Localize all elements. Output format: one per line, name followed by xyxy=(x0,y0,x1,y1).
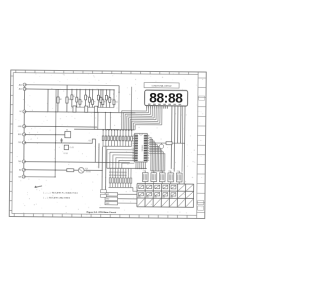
resistor R6 xyxy=(92,100,94,105)
wire drop x100.4 xyxy=(100,90,102,108)
wire rail 7 (TH1) xyxy=(24,162,130,163)
wire collect line under RA1 xyxy=(103,145,131,147)
display DS1 bottom-right pins xyxy=(171,106,173,110)
wire drop x105.9 xyxy=(105,90,107,108)
wire drop x109.3 xyxy=(109,90,111,108)
crystal X1 xyxy=(65,131,71,137)
label box CONDITIONAL DISPLAY xyxy=(144,83,179,88)
junction dots on bus corners xyxy=(107,129,108,130)
wire rail 5 (OSC1) xyxy=(24,133,64,135)
resistor R2 xyxy=(57,97,59,103)
connector pin TXD xyxy=(23,141,26,144)
svg-text:TH1: TH1 xyxy=(18,161,21,163)
connector pin TH1 xyxy=(22,160,25,163)
capacitor C1 xyxy=(76,97,78,102)
wire collector segment under comb xyxy=(72,106,114,108)
wire drop x97.8 xyxy=(97,90,99,108)
svg-text:R6: R6 xyxy=(94,101,96,103)
wire rail y142.5 right of IC xyxy=(149,142,184,144)
svg-text:R8: R8 xyxy=(104,101,106,103)
wire rail VSS (second) xyxy=(25,88,114,91)
wire rail 3 (VC) xyxy=(24,112,135,113)
transistor Q1 xyxy=(78,168,84,174)
wire vertical x184.6 to matrix right xyxy=(183,106,186,184)
capacitor C3 xyxy=(61,138,63,143)
wire staircase bottoms join drivers xyxy=(151,170,165,172)
wire vertical x95.5 xyxy=(94,139,96,162)
svg-text:D2: D2 xyxy=(151,171,153,173)
svg-text:C4 102: C4 102 xyxy=(63,153,68,155)
transistor Q2 xyxy=(159,144,163,148)
wire drop x92.1 xyxy=(91,90,93,108)
short separator above caption xyxy=(99,207,119,209)
svg-text:BZ: BZ xyxy=(19,169,21,171)
wire vertical x182.3 xyxy=(181,106,184,172)
wire display right vertical 4 xyxy=(180,110,182,143)
svg-text:D3: D3 xyxy=(160,171,162,173)
svg-text:CONDITIONAL DISPLAY: CONDITIONAL DISPLAY xyxy=(152,84,173,87)
svg-text:R2: R2 xyxy=(60,99,62,101)
wire bus display to IC (nested) xyxy=(122,108,147,130)
svg-text:R3: R3 xyxy=(73,96,75,98)
connector pin AC2 xyxy=(23,87,26,90)
connector pin SW xyxy=(22,175,25,178)
diode D2 xyxy=(109,98,111,103)
svg-text:SW2: SW2 xyxy=(106,198,110,200)
key switches middle row xyxy=(139,192,144,195)
svg-text:SW3: SW3 xyxy=(106,203,110,205)
svg-text:R1: R1 xyxy=(69,99,71,101)
wire drop x85.2 xyxy=(85,90,87,108)
key switches top row xyxy=(139,185,144,189)
svg-text:R10: R10 xyxy=(115,101,118,103)
resistor R4 xyxy=(79,100,81,105)
wire RA2 to matrix xyxy=(133,188,137,192)
svg-text:SW: SW xyxy=(18,176,21,178)
svg-text:( —○— ) : INDICATES P.C. BOA: ( —○— ) : INDICATES P.C. BOARD FOILS xyxy=(43,191,78,194)
wire vertical x106 xyxy=(104,146,106,194)
feeder left label boxes xyxy=(100,190,106,193)
resistor R11 on rail y142.5 xyxy=(166,142,172,145)
wire drop x113.5 xyxy=(113,90,115,108)
IC U1 right pin stubs xyxy=(147,134,149,136)
wire vertical x99 xyxy=(98,143,100,168)
connector pin VC xyxy=(23,110,26,113)
connector pin GND xyxy=(23,125,26,128)
wire drop x79.5 xyxy=(79,90,81,108)
wire drop x57.5 xyxy=(57,89,59,112)
wire vertical x55.5 cross xyxy=(54,89,57,177)
svg-text:X1: X1 xyxy=(66,129,68,131)
wire VDD rail corner drop x118.5 xyxy=(118,86,120,93)
svg-text:( → ) : INDICATES LEAD WIRES: ( → ) : INDICATES LEAD WIRES xyxy=(43,196,70,199)
svg-text:AC1: AC1 xyxy=(19,83,22,86)
wire sub-rail with IC input dots xyxy=(74,128,134,131)
wire cluster to IC lower-left verticals xyxy=(88,139,96,143)
svg-text:C5 473: C5 473 xyxy=(69,147,74,149)
svg-text:88:88: 88:88 xyxy=(149,91,183,106)
resistor R7 xyxy=(97,95,99,100)
display DS1 bottom-left pin row xyxy=(146,106,148,109)
wire display right vertical 3 xyxy=(177,110,179,143)
display DS1 outline xyxy=(145,90,188,106)
wire rail 9 (SW) xyxy=(24,176,55,178)
wire display right vertical 1 xyxy=(170,110,173,169)
wire drop x89.0 xyxy=(88,90,90,108)
resistor R9 xyxy=(105,95,107,100)
wire rail 4 (GND) xyxy=(24,125,97,128)
resistor R10 xyxy=(113,100,115,105)
diode D1 xyxy=(100,98,102,103)
IC U1 left pin stubs xyxy=(133,134,135,136)
svg-text:2SC945: 2SC945 xyxy=(86,171,91,173)
svg-text:SW3: SW3 xyxy=(154,197,157,199)
wire display right vertical 2 xyxy=(173,110,176,172)
wire drop x102.4 xyxy=(102,90,104,108)
key matrix grid xyxy=(137,183,194,186)
component cluster C4 C5 xyxy=(64,145,68,149)
component block X-row boxes on rail3 xyxy=(73,106,76,112)
resistor R12 on rail 8 xyxy=(67,169,74,172)
svg-text:D5: D5 xyxy=(177,171,179,173)
empty key cells diagonal slashes xyxy=(138,199,145,206)
junction dots row above IC xyxy=(103,129,104,130)
svg-text:SW4: SW4 xyxy=(162,197,165,199)
resistor array RA1 above IC left pins xyxy=(102,130,104,136)
capacitor C2 xyxy=(88,97,90,102)
resistor R1 xyxy=(66,97,68,103)
svg-text:SW5: SW5 xyxy=(170,197,173,199)
wire drop x47.5 xyxy=(47,89,49,112)
resistor array RA2 comb xyxy=(109,168,111,187)
svg-text:Q1: Q1 xyxy=(86,168,88,170)
row feeder boxes xyxy=(105,193,118,197)
wire collect line RA2 xyxy=(109,186,133,188)
display DS1 legend marks under digits xyxy=(148,103,151,105)
connector pin AC1 xyxy=(23,83,26,86)
svg-text:R4: R4 xyxy=(81,101,83,103)
svg-text:D1: D1 xyxy=(143,171,145,173)
svg-text:SW2: SW2 xyxy=(146,197,149,199)
svg-text:SW1: SW1 xyxy=(138,197,141,199)
resistor R3 xyxy=(71,95,73,100)
connector pin BZ xyxy=(22,168,25,171)
wire feeder rails to matrix xyxy=(118,193,137,195)
connector pin RXD xyxy=(23,133,26,136)
transistor drivers Q3-Q7 row xyxy=(142,173,148,182)
svg-text:AC2: AC2 xyxy=(19,88,22,91)
wire left connector bus vertical xyxy=(23,85,26,177)
wire drop from VDD rail at x66.5 xyxy=(66,85,68,112)
svg-text:TMP47C: TMP47C xyxy=(140,145,142,152)
wire nest into IC lower-left xyxy=(107,149,135,168)
wire bus IC right to key matrix (staircase) xyxy=(149,137,151,171)
wire rail VDD (top) xyxy=(25,84,119,87)
wire rail 6 (OSC2) xyxy=(24,142,88,145)
IC U1 right pin band xyxy=(144,134,147,136)
wire drop x71.4 xyxy=(71,89,73,107)
IC U1 bottom pin stubs xyxy=(135,162,137,169)
wire vertical x131 into IC region xyxy=(130,87,132,130)
wire segment x118.5 to rail3 xyxy=(118,92,120,112)
wire rail under IC y168.2 xyxy=(107,167,147,169)
wire drop x76.3 xyxy=(76,89,78,107)
resistor R8 xyxy=(102,100,104,105)
svg-text:D4: D4 xyxy=(168,171,170,173)
wire rail 8 (BZ) xyxy=(24,169,103,172)
svg-text:Figure 5-2. CPU Main Circuit: Figure 5-2. CPU Main Circuit xyxy=(87,211,117,214)
wire verticals rail3 to dot row xyxy=(93,112,95,129)
svg-text:IC2: IC2 xyxy=(89,140,92,142)
wire vertical x102.5 xyxy=(101,146,103,189)
resistor R5 xyxy=(85,95,87,100)
IC U1 left pin band xyxy=(135,134,138,136)
chassis arrow symbol xyxy=(35,186,42,188)
IC U1 microcontroller body xyxy=(134,133,147,162)
